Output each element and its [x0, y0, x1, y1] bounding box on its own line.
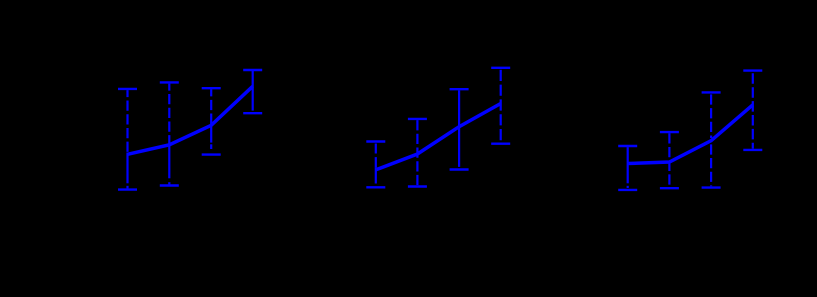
subplot 1 error bar P2 — [160, 82, 179, 185]
subplot 3 error bar P3 — [702, 92, 721, 187]
subplot 1 error bar P1 — [118, 89, 137, 190]
subplot 2 error bar P1 — [366, 142, 385, 188]
subplot 2 error bar P3 — [450, 89, 469, 169]
subplot 3 error bar P4 — [743, 71, 762, 150]
subplot 2 error bar P2 — [408, 119, 427, 187]
subplot 3 error bar P2 — [660, 132, 679, 188]
subplot 3 data line — [628, 105, 753, 164]
subplot 2 data line — [376, 104, 501, 170]
subplot 3 error bar P1 — [618, 146, 637, 190]
subplot 2 error bar P4 — [491, 68, 510, 144]
subplot 1 data line — [128, 86, 253, 154]
subplot 1 error bar P3 — [202, 88, 221, 154]
subplot 1 error bar P4 — [243, 70, 262, 113]
